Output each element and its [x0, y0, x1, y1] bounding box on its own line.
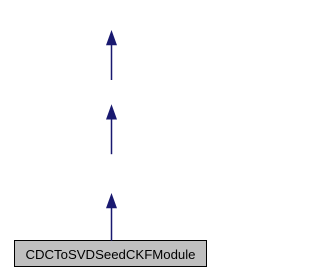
svg-text:CDCToSVDSeedCKFModule: CDCToSVDSeedCKFModule: [25, 247, 195, 262]
